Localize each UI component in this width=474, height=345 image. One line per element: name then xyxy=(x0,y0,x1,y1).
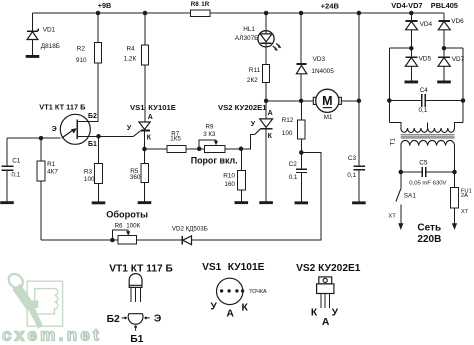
svg-text:100К: 100К xyxy=(126,222,140,229)
svg-text:R8: R8 xyxy=(191,1,199,8)
svg-text:0,1: 0,1 xyxy=(289,174,298,181)
svg-text:100: 100 xyxy=(282,130,293,137)
svg-text:VD2: VD2 xyxy=(172,226,185,233)
svg-text:А: А xyxy=(148,114,153,121)
svg-text:1N4005: 1N4005 xyxy=(311,68,334,75)
svg-text:Обороты: Обороты xyxy=(106,210,148,220)
svg-text:910: 910 xyxy=(76,57,87,64)
svg-text:ХТ: ХТ xyxy=(388,213,396,219)
svg-text:Т1: Т1 xyxy=(390,138,397,146)
svg-text:ХТ: ХТ xyxy=(461,209,469,215)
svg-text:220В: 220В xyxy=(417,234,441,245)
svg-text:360: 360 xyxy=(130,174,141,181)
svg-text:У: У xyxy=(332,307,339,318)
svg-text:C3: C3 xyxy=(348,155,357,162)
svg-text:VD4-VD7: VD4-VD7 xyxy=(391,1,422,10)
svg-text:VD4: VD4 xyxy=(420,21,433,28)
svg-text:1R: 1R xyxy=(201,1,209,8)
svg-text:VD3: VD3 xyxy=(313,56,326,63)
svg-text:VD1: VD1 xyxy=(43,26,56,33)
svg-text:ТОЧКА: ТОЧКА xyxy=(249,289,267,295)
svg-text:VS1: VS1 xyxy=(202,262,222,273)
svg-text:VT1 КТ 117 Б: VT1 КТ 117 Б xyxy=(109,263,173,274)
svg-text:Б1: Б1 xyxy=(130,334,143,345)
svg-text:C1: C1 xyxy=(12,157,21,164)
svg-text:У: У xyxy=(210,302,217,313)
svg-text:VD7: VD7 xyxy=(452,56,465,63)
svg-text:КУ101Е: КУ101Е xyxy=(148,103,176,112)
svg-text:КД503Б: КД503Б xyxy=(186,226,208,233)
svg-text:cxem.net: cxem.net xyxy=(2,326,102,345)
svg-text:R9: R9 xyxy=(206,123,214,130)
svg-text:M: M xyxy=(322,94,332,108)
svg-text:2К2: 2К2 xyxy=(247,77,258,84)
svg-text:VS2 КУ202Е1: VS2 КУ202Е1 xyxy=(218,103,267,112)
svg-text:3 К3: 3 К3 xyxy=(203,131,216,138)
svg-text:R1: R1 xyxy=(47,161,56,168)
svg-text:R6: R6 xyxy=(115,222,123,229)
svg-text:+9В: +9В xyxy=(98,1,111,10)
svg-text:0,1: 0,1 xyxy=(347,172,356,179)
svg-text:C4: C4 xyxy=(420,87,429,94)
svg-text:Д818Б: Д818Б xyxy=(41,43,60,50)
svg-text:1,2К: 1,2К xyxy=(124,56,137,63)
svg-text:Э: Э xyxy=(154,313,161,324)
svg-text:R3: R3 xyxy=(84,168,93,175)
svg-text:0,1: 0,1 xyxy=(419,107,428,114)
svg-text:2А: 2А xyxy=(461,193,468,199)
svg-text:Порог вкл.: Порог вкл. xyxy=(191,155,238,165)
svg-text:VS1: VS1 xyxy=(130,103,145,112)
svg-text:VD5: VD5 xyxy=(419,56,432,63)
svg-text:C2: C2 xyxy=(289,161,298,168)
svg-text:У: У xyxy=(251,121,256,128)
svg-text:630V: 630V xyxy=(433,181,447,187)
svg-text:M1: M1 xyxy=(324,114,333,121)
svg-text:VT1 КТ 117 Б: VT1 КТ 117 Б xyxy=(39,102,86,111)
svg-text:КУ101Е: КУ101Е xyxy=(228,262,265,273)
svg-text:Б1: Б1 xyxy=(88,141,97,148)
svg-text:0,05 mF: 0,05 mF xyxy=(409,181,431,187)
svg-text:PBL405: PBL405 xyxy=(431,1,458,10)
svg-text:HL1: HL1 xyxy=(243,26,255,33)
svg-text:R10: R10 xyxy=(223,173,235,180)
svg-text:4К7: 4К7 xyxy=(47,169,58,176)
svg-text:Сеть: Сеть xyxy=(417,222,441,233)
svg-text:АЛ307Б: АЛ307Б xyxy=(235,35,258,42)
svg-text:R2: R2 xyxy=(77,45,86,52)
svg-text:SA1: SA1 xyxy=(404,192,417,199)
svg-text:А: А xyxy=(268,110,273,117)
svg-text:К: К xyxy=(242,302,249,313)
svg-text:К: К xyxy=(311,307,318,318)
svg-text:C5: C5 xyxy=(419,159,428,166)
svg-text:0,1: 0,1 xyxy=(11,171,20,178)
svg-text:А: А xyxy=(226,309,234,320)
svg-text:R11: R11 xyxy=(249,67,261,74)
svg-text:1К5: 1К5 xyxy=(170,136,181,143)
svg-text:К: К xyxy=(147,135,152,142)
svg-text:А: А xyxy=(322,317,330,328)
svg-text:К: К xyxy=(268,133,273,140)
svg-text:R4: R4 xyxy=(127,45,136,52)
svg-text:Б2: Б2 xyxy=(107,314,120,325)
svg-text:VD6: VD6 xyxy=(451,18,464,25)
svg-text:Б2: Б2 xyxy=(88,113,97,120)
svg-text:У: У xyxy=(127,125,132,132)
svg-text:100: 100 xyxy=(84,176,95,183)
svg-text:Э: Э xyxy=(52,126,57,133)
svg-text:VS2 КУ202Е1: VS2 КУ202Е1 xyxy=(296,263,361,274)
svg-text:160: 160 xyxy=(224,181,235,188)
svg-text:+24В: +24В xyxy=(321,2,340,11)
svg-text:R12: R12 xyxy=(282,117,294,124)
